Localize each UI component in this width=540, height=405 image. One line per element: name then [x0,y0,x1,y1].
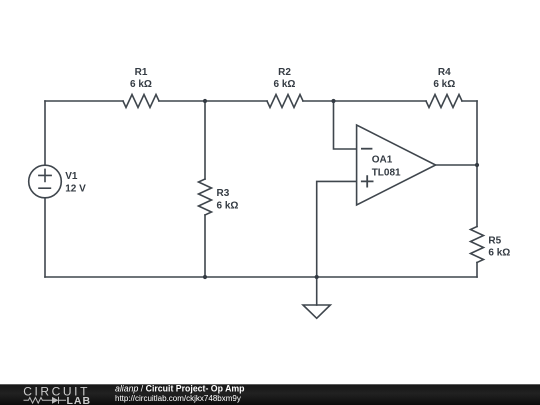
op-amp plus input symbol [362,176,373,186]
svg-text:6 kΩ: 6 kΩ [433,79,455,90]
wire right vertical down to R5 [476,101,478,227]
svg-text:12 V: 12 V [65,184,86,195]
V1 plus sign [39,169,51,181]
wire left vertical top to V1 [44,101,46,165]
svg-text:LAB: LAB [67,395,92,405]
svg-text:6 kΩ: 6 kΩ [274,79,296,90]
wire non-inverting input to ground node [317,181,357,277]
ground symbol [303,305,330,318]
wire R3 to bottom node [204,215,206,277]
junction ground node [315,275,319,279]
op-amp OA1 triangle [357,125,436,205]
svg-text:6 kΩ: 6 kΩ [488,248,510,259]
wire node A to R2 [205,100,267,102]
CircuitLab logo resistor-diode squiggle [24,397,67,404]
svg-text:6 kΩ: 6 kΩ [130,79,152,90]
wire node A down to R3 [204,101,206,179]
resistor R3 [199,179,212,215]
wire R1 to node A [159,100,205,102]
junction R3 bottom node [203,275,207,279]
svg-text:http://circuitlab.com/ckjkx748: http://circuitlab.com/ckjkx748bxm9y [115,394,241,403]
wire R2 to node B [303,100,334,102]
wire node B to R4 [334,100,427,102]
svg-text:R3: R3 [217,188,230,199]
svg-text:R5: R5 [488,235,501,246]
svg-text:alianp / Circuit Project- Op A: alianp / Circuit Project- Op Amp [115,384,245,394]
svg-text:R2: R2 [278,67,291,78]
svg-text:R4: R4 [438,67,451,78]
svg-text:TL081: TL081 [372,168,401,179]
wire R4 to right corner [462,100,477,102]
wire ground stem [316,277,318,305]
wire node B down to inverting input [334,101,357,149]
wire bottom [45,276,477,278]
wire op-amp output [436,164,477,166]
wire V1 to bottom left corner [44,198,46,277]
voltage source V1 [29,165,62,198]
junction node B [331,99,335,103]
junction output node [475,163,479,167]
junction node A [203,99,207,103]
resistor R4 [426,95,462,108]
op-amp minus input symbol [362,148,372,150]
wire R5 to bottom right corner [476,263,478,278]
V1 minus sign [39,187,50,189]
svg-text:R1: R1 [135,67,148,78]
resistor R5 [471,227,484,263]
wire top: left corner to R1 [45,100,123,102]
resistor R2 [267,95,303,108]
svg-text:V1: V1 [65,171,78,182]
resistor R1 [123,95,159,108]
svg-text:OA1: OA1 [372,154,393,165]
svg-text:6 kΩ: 6 kΩ [217,200,239,211]
